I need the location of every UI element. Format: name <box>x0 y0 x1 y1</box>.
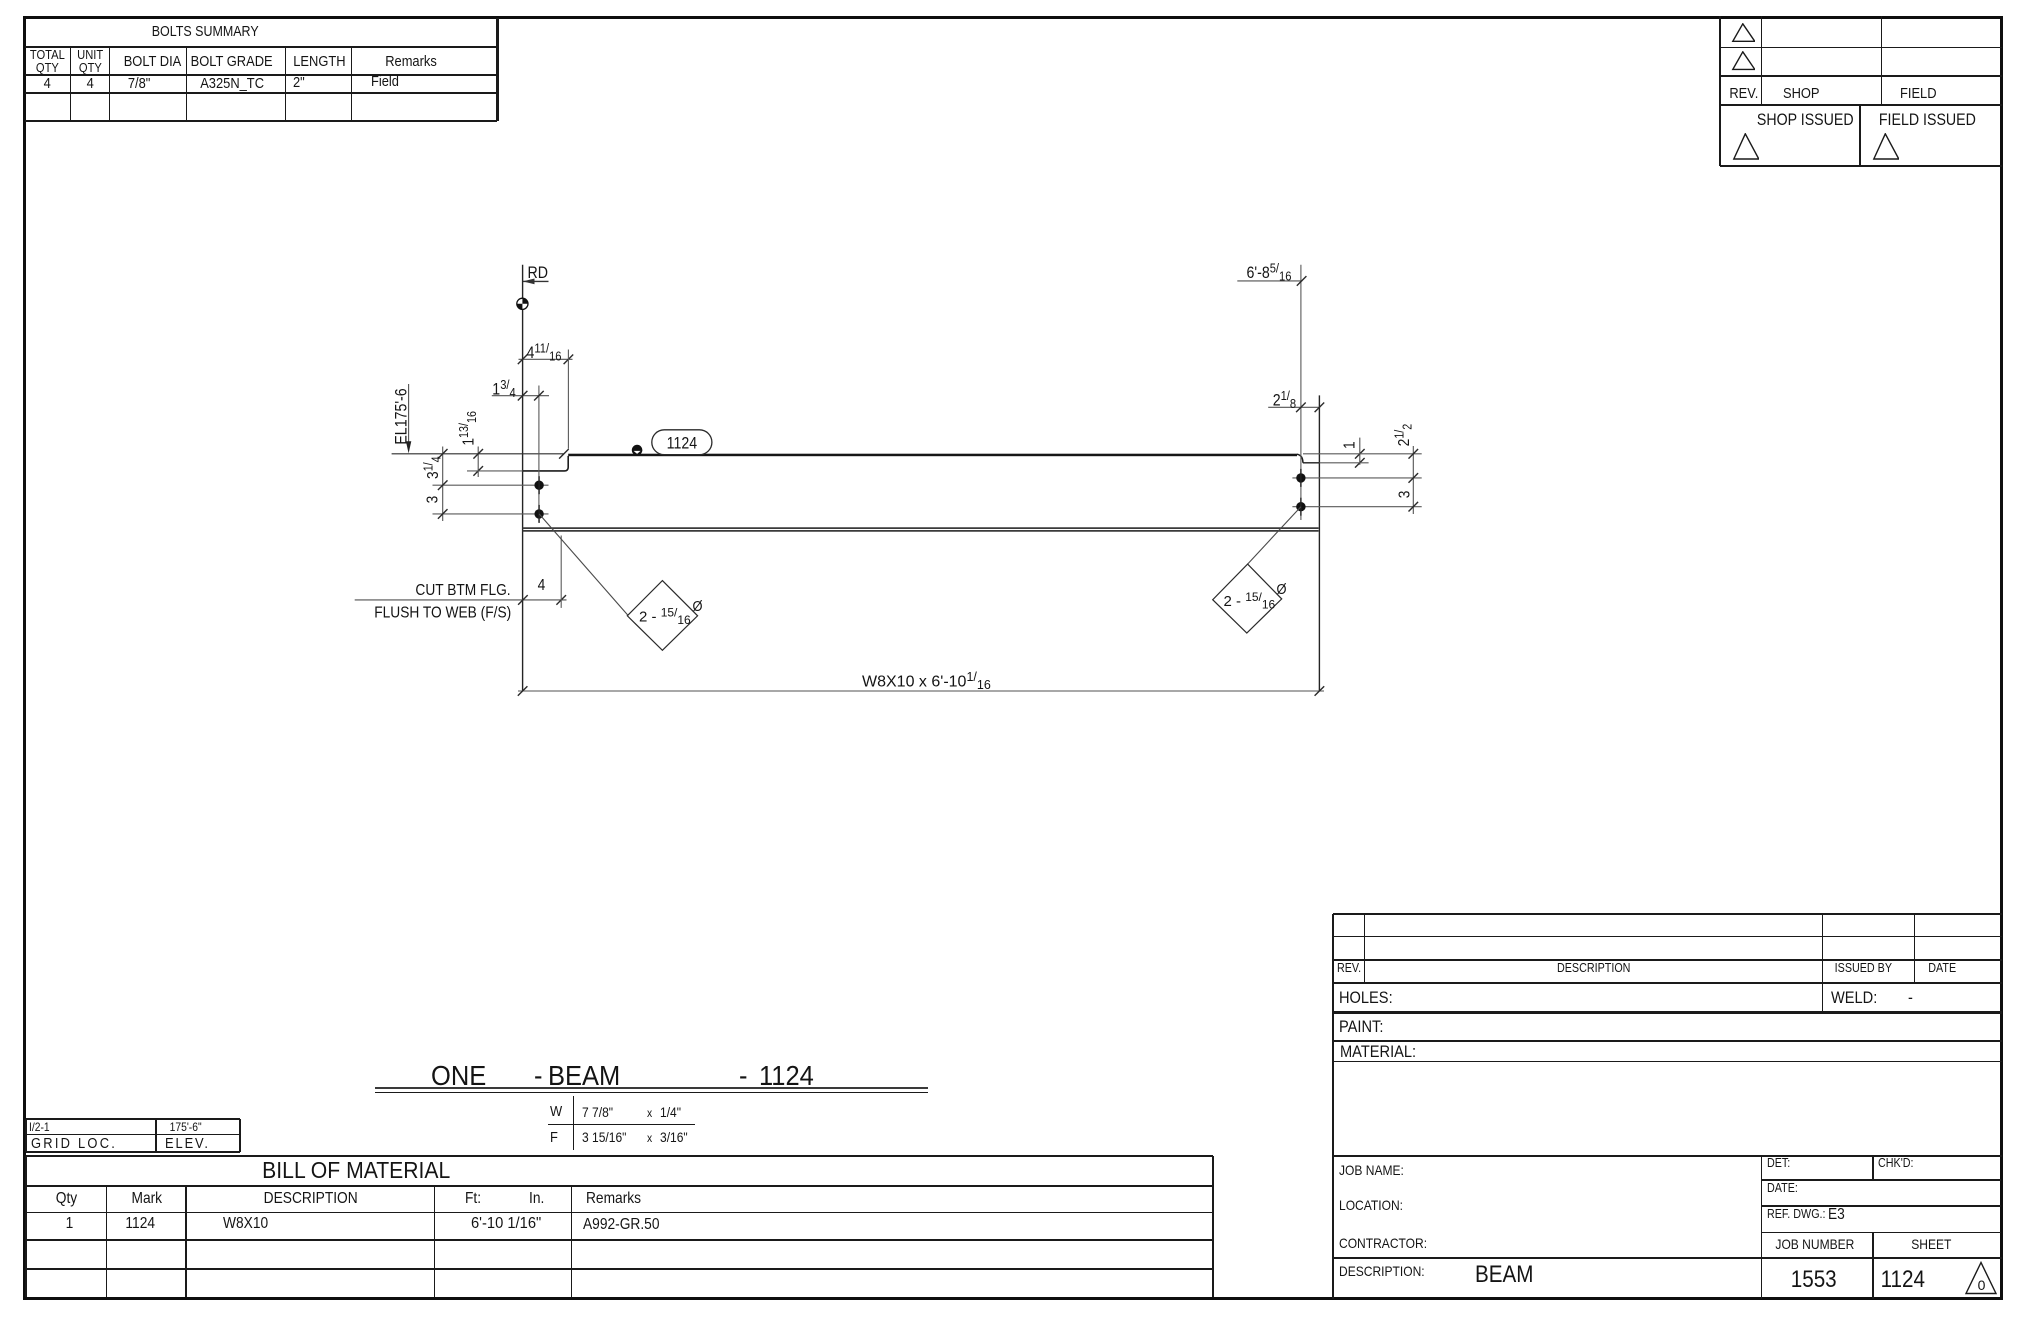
EL175-6 elevation label (rotated) <box>393 388 411 444</box>
dimension text 1 13/16 (rotated) <box>457 411 479 446</box>
beam right cope <box>1297 454 1303 463</box>
grid loc / elev table <box>26 1118 240 1120</box>
title underline heavy <box>375 1087 928 1089</box>
W/F size table <box>573 1096 574 1150</box>
dimension 1 3/4 line <box>492 395 549 397</box>
extension line for 4 11/16 <box>567 350 569 449</box>
contractor <box>1339 1236 1441 1250</box>
leader to right hole callout <box>1248 507 1301 564</box>
extension cope line left <box>467 470 523 472</box>
svg-text:31/4: 31/4 <box>422 456 444 479</box>
title underline thin <box>375 1092 928 1094</box>
location <box>1339 1198 1413 1212</box>
job number header <box>1759 1237 1871 1251</box>
svg-text:21/2: 21/2 <box>1393 424 1415 447</box>
revision triangle row2 <box>1730 51 1755 71</box>
work line / beam left end (RD line) <box>522 265 524 691</box>
bolts summary title <box>55 25 355 40</box>
elev label <box>165 1136 217 1151</box>
dimension text 3 left (rotated) <box>423 496 441 504</box>
RD label with left arrow <box>528 264 548 282</box>
grid loc value <box>29 1121 53 1133</box>
description value BEAM <box>1475 1263 1543 1287</box>
diameter symbol right <box>1276 580 1286 597</box>
bolt B3 <box>1296 473 1305 482</box>
EL leader line <box>408 384 410 442</box>
svg-text:3: 3 <box>1395 491 1413 499</box>
shop issued triangle <box>1731 133 1759 161</box>
dimension text 4 11/16 <box>527 341 562 364</box>
date cell <box>1767 1182 1803 1195</box>
cut btm flg note <box>415 581 510 599</box>
extension flange cut <box>560 536 562 608</box>
rev shop field labels <box>1722 86 1766 101</box>
extension line bolt row 2 right <box>1292 506 1421 508</box>
dimension text 3 1/4 (rotated) <box>422 456 444 479</box>
job name <box>1339 1163 1414 1177</box>
bom header <box>36 1191 96 1207</box>
dimension text 6-8 5/16 <box>1247 261 1292 284</box>
direction mark (filled circle) <box>632 445 643 456</box>
svg-text:4: 4 <box>538 576 546 594</box>
bom row 1 <box>49 1216 89 1232</box>
diameter symbol left <box>692 597 702 614</box>
svg-text:411/16: 411/16 <box>527 341 562 364</box>
beam left cope (top flange cut back) <box>523 456 569 471</box>
sheet value <box>1853 1268 1953 1292</box>
extension line bolt row 1 right <box>1292 477 1421 479</box>
dimension 1 13/16 line <box>477 447 479 478</box>
field issued triangle <box>1871 133 1899 161</box>
sheet title ONE - BEAM - 1124 <box>431 1062 492 1090</box>
svg-text:13/4: 13/4 <box>492 377 516 400</box>
material row <box>1340 1043 1428 1060</box>
dimension text 1 (rotated) <box>1341 441 1359 449</box>
svg-text:1124: 1124 <box>667 434 698 452</box>
right bolt gauge line <box>1300 265 1302 520</box>
EL reference line / top of steel <box>392 453 564 455</box>
title block <box>1332 914 1334 1299</box>
ref dwg <box>1767 1208 1835 1221</box>
dimension text 1 3/4 <box>492 377 516 400</box>
beam bottom flange <box>523 527 1319 529</box>
revision table top-right <box>1719 16 1721 166</box>
dimension 4 11/16 line <box>519 358 573 360</box>
svg-text:3: 3 <box>423 496 441 504</box>
dimension text 3 right (rotated) <box>1395 491 1413 499</box>
paint row <box>1339 1018 1391 1035</box>
revision triangle row1 <box>1730 23 1755 43</box>
dimension 1 line <box>1359 438 1361 465</box>
bom title <box>146 1159 566 1182</box>
beam right end line <box>1318 395 1320 691</box>
EL arrow (filled, down) <box>406 441 411 453</box>
right hole callout diamond <box>1213 564 1282 633</box>
dimension 2 1/2 and 3 line <box>1412 446 1414 514</box>
svg-text:1: 1 <box>1341 441 1359 449</box>
description label <box>1339 1264 1439 1278</box>
dimension 2 1/8 line <box>1268 406 1319 408</box>
det chkd <box>1767 1157 1794 1170</box>
elev value <box>146 1121 226 1133</box>
title block header row <box>1337 962 1365 975</box>
svg-text:CUT BTM FLG.: CUT BTM FLG. <box>415 581 510 599</box>
bolt B2 <box>534 509 543 518</box>
tick at beam work point <box>559 449 569 459</box>
beam top flange (W8X10) <box>568 454 1297 457</box>
svg-text:113/16: 113/16 <box>457 411 479 446</box>
extension line bolt row 2 left <box>433 513 549 515</box>
grid loc label <box>31 1136 131 1151</box>
shop issued cell <box>1725 112 1885 129</box>
bolts summary table <box>25 46 498 48</box>
svg-text:W8X10 x 6'-101/16: W8X10 x 6'-101/16 <box>862 670 991 692</box>
dimension 4 line / note underline <box>355 599 567 601</box>
left bolt gauge line <box>538 386 540 523</box>
svg-text:Ø: Ø <box>1276 580 1286 597</box>
bolt B4 <box>1296 502 1305 511</box>
overall dimension line <box>518 690 1324 692</box>
svg-text:Ø: Ø <box>692 597 702 614</box>
svg-text:6'-85/16: 6'-85/16 <box>1247 261 1292 284</box>
dimension 6-8 5/16 line <box>1237 280 1302 282</box>
extension cope line right <box>1319 462 1368 464</box>
holes row <box>1339 989 1401 1006</box>
dimension text 4 <box>538 576 546 594</box>
bolts row data <box>25 76 71 91</box>
bill of material table <box>26 1155 1213 1157</box>
svg-text:FLUSH TO WEB (F/S): FLUSH TO WEB (F/S) <box>374 603 511 621</box>
extension top flange right <box>1303 453 1422 455</box>
extension line bolt row 1 left <box>433 484 549 486</box>
leader to left hole callout <box>539 514 628 616</box>
dimension text 2 1/8 <box>1273 388 1297 411</box>
job number value <box>1764 1268 1864 1292</box>
piece mark oval 1124 <box>652 430 712 455</box>
left hole callout diamond <box>627 581 697 651</box>
dimension 3 1/4 and 3 line <box>442 447 444 522</box>
revision 0 triangle <box>1963 1261 1999 1299</box>
work point symbol (quartered circle) <box>517 298 528 309</box>
bolt B1 <box>534 481 543 490</box>
dimension text 2 1/2 (rotated) <box>1393 424 1415 447</box>
